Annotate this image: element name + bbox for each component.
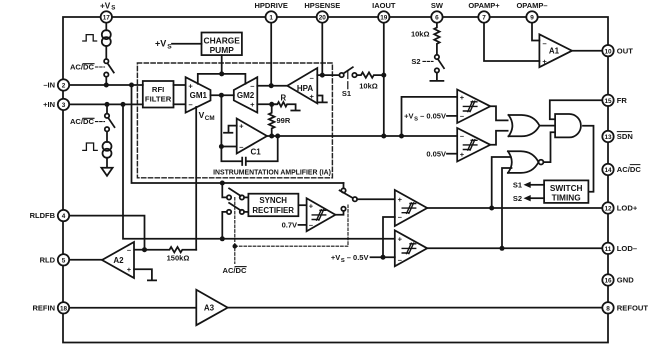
pin 13 SDN <box>602 131 613 142</box>
wire IAOUT pin 19 down <box>383 23 385 136</box>
wire GM2 + to R node <box>257 103 276 105</box>
svg-text:GND: GND <box>617 276 634 285</box>
label +Vs charge pump <box>155 38 172 50</box>
svg-text:CM: CM <box>205 115 215 122</box>
wire +IN net <box>69 103 143 105</box>
node -IN branch to synch switch <box>129 83 134 88</box>
label AC/DC control <box>222 266 247 275</box>
wire OR out to AND <box>540 125 556 127</box>
ground (open triangle) <box>101 168 112 176</box>
pin 20 HPSENSE <box>317 11 328 22</box>
svg-text:+: + <box>398 234 403 243</box>
svg-text:9: 9 <box>530 15 534 22</box>
op-amp HPA <box>287 68 317 103</box>
resistor 150k <box>145 247 197 252</box>
svg-text:–: – <box>543 39 547 48</box>
svg-text:GM1: GM1 <box>190 91 208 100</box>
svg-text:10: 10 <box>604 48 612 55</box>
node HPSENSE <box>320 73 325 78</box>
svg-text:13: 13 <box>604 134 612 141</box>
label +Vs - 0.5V <box>331 253 369 264</box>
AND gate U5 <box>555 114 581 137</box>
comparator U9 LOD- <box>395 230 427 266</box>
comparator U3 (0.05V) <box>457 128 490 162</box>
wire synch rectifier to comparator + <box>298 204 306 206</box>
svg-text:OUT: OUT <box>617 46 633 55</box>
label +Vs - 0.05V <box>404 112 446 123</box>
svg-text:10kΩ: 10kΩ <box>359 82 378 91</box>
pin 3 +IN <box>58 99 69 110</box>
svg-text:18: 18 <box>60 305 68 312</box>
svg-text:FILTER: FILTER <box>145 95 172 104</box>
wire IA output <box>267 135 457 137</box>
svg-text:V: V <box>199 110 205 120</box>
svg-text:20: 20 <box>319 15 327 22</box>
svg-text:LOD+: LOD+ <box>617 204 638 213</box>
svg-text:–: – <box>127 245 131 254</box>
op-amp A3 <box>196 290 227 326</box>
svg-text:–: – <box>250 81 254 90</box>
svg-text:99R: 99R <box>277 116 291 125</box>
wire HPSENSE pin 20 down <box>321 23 323 75</box>
svg-text:SW: SW <box>431 1 444 10</box>
svg-text:–: – <box>310 74 314 83</box>
svg-text:0.05V: 0.05V <box>426 149 446 158</box>
svg-text:7: 7 <box>482 15 486 22</box>
svg-text:+: + <box>460 93 465 102</box>
NOR gate U6 <box>508 151 539 173</box>
svg-text:150kΩ: 150kΩ <box>167 254 190 263</box>
svg-text:RLDFB: RLDFB <box>30 211 56 220</box>
wire current source to switch <box>105 46 107 59</box>
op-amp A1 <box>539 34 572 67</box>
label AC/DC lower <box>70 117 95 126</box>
node bottom wire to lower synch switch <box>220 236 225 241</box>
resistor 99R <box>269 104 275 136</box>
op-amp GM2 <box>234 77 257 112</box>
wire OPAMP+ pin 7 to A1 <box>484 23 539 61</box>
svg-text:10kΩ: 10kΩ <box>411 30 430 39</box>
svg-text:14: 14 <box>604 167 612 174</box>
wire NOR out to AND <box>543 132 555 162</box>
svg-text:RFI: RFI <box>152 85 164 94</box>
svg-text:S1: S1 <box>342 89 351 98</box>
comparator U8 LOD+ <box>395 190 427 226</box>
wire 0.05V to comparator + <box>447 153 457 155</box>
svg-text:+: + <box>460 150 465 159</box>
node C1 top <box>275 134 280 139</box>
node integrator - input <box>219 144 224 149</box>
node wire A to upper synch switch <box>220 181 225 186</box>
svg-text:A1: A1 <box>549 47 560 56</box>
wire REFIN pin 18 to A3 <box>69 307 196 309</box>
wire +Vs to charge pump <box>172 43 202 45</box>
wire charge pump bias <box>198 55 246 84</box>
svg-text:–: – <box>460 131 464 140</box>
wire A3 out to REFOUT pin 8 <box>228 307 603 309</box>
pin 15 FR <box>602 95 613 106</box>
pin 4 RLDFB <box>58 210 69 221</box>
label AC/DC upper <box>70 63 95 72</box>
svg-text:HPA: HPA <box>297 84 314 93</box>
svg-text:+: + <box>127 265 132 274</box>
svg-text:FR: FR <box>617 96 628 105</box>
svg-text:LOD–: LOD– <box>617 244 637 253</box>
IA dashed box <box>137 63 332 178</box>
node LOD+ to NOR <box>489 206 494 211</box>
node +IN branch to RLD amp <box>121 102 126 107</box>
wire LOD- output to pin 11 <box>427 247 602 249</box>
svg-text:S1: S1 <box>513 181 522 190</box>
wire NOR input from LOD- <box>502 168 512 248</box>
node AC/DC dashed junction <box>233 244 238 249</box>
comparator U7 (0.7V) <box>307 198 336 231</box>
pin 2 -IN <box>58 79 69 90</box>
svg-text:+: + <box>398 195 403 204</box>
node +IN / current source junction <box>105 102 110 107</box>
label 0.05V <box>426 149 446 158</box>
wire FR pin 15 to AND <box>550 100 603 119</box>
wire S2 control arrow <box>530 197 544 199</box>
node LOD- to NOR <box>500 246 505 251</box>
svg-text:+V: +V <box>155 38 166 48</box>
wire A2 - input <box>134 249 145 251</box>
pin 14 AC/DC <box>602 164 613 175</box>
svg-text:PUMP: PUMP <box>210 45 235 55</box>
svg-text:SYNCH: SYNCH <box>259 196 287 205</box>
comparator U2 (+Vs-0.05V) <box>457 90 490 124</box>
svg-text:11: 11 <box>605 246 612 253</box>
wire -IN net <box>69 84 143 86</box>
svg-text:C1: C1 <box>251 148 262 157</box>
pin 9 OPAMP- <box>526 11 537 22</box>
pin 5 RLD <box>58 254 69 265</box>
svg-text:SWITCH: SWITCH <box>550 183 583 193</box>
node -IN / current source junction <box>104 83 109 88</box>
OR gate U4 <box>509 115 540 136</box>
svg-text:S2: S2 <box>513 194 522 203</box>
wire S1 control arrow <box>530 184 544 186</box>
svg-text:15: 15 <box>604 98 612 105</box>
ground tick S2 <box>430 73 443 81</box>
synch rectifier box <box>248 194 298 217</box>
svg-text:+V S – 0.05V: +V S – 0.05V <box>404 112 446 123</box>
svg-text:OPAMP+: OPAMP+ <box>468 1 500 10</box>
wire current source to ground <box>106 158 108 168</box>
svg-text:TIMING: TIMING <box>552 192 581 202</box>
svg-text:–: – <box>460 112 464 121</box>
wire +IN branch down to LOD comparator <box>123 104 395 238</box>
wire HPDRIVE pin 1 down <box>270 23 272 86</box>
svg-text:+IN: +IN <box>43 100 55 109</box>
pin 8 REFOUT <box>602 302 613 313</box>
wire RLDFB pin 4 <box>69 216 144 250</box>
svg-text:–: – <box>398 213 402 222</box>
svg-text:–: – <box>398 255 402 264</box>
wire A1 out to pin 10 <box>572 50 603 52</box>
wire comparator U3 out to OR <box>490 131 510 145</box>
svg-text:+: + <box>239 121 244 130</box>
wire 0.05V ref to comparator - <box>447 115 457 117</box>
svg-text:–: – <box>239 142 243 151</box>
resistor 10k (fast restore) <box>357 72 384 77</box>
wire A2 out to RLD pin 5 <box>69 259 102 261</box>
resistor 10k (SW pin) <box>434 23 439 55</box>
svg-text:17: 17 <box>103 15 111 22</box>
wire AND out to switch timing <box>583 126 594 192</box>
svg-text:A2: A2 <box>113 256 124 265</box>
wire -IN branch down to synch switches (wire A) <box>132 85 344 183</box>
svg-text:+V: +V <box>100 1 111 10</box>
op-amp C1 integrator <box>237 119 267 154</box>
svg-text:S: S <box>111 4 115 11</box>
pin 7 OPAMP+ <box>478 11 489 22</box>
node HPDRIVE <box>269 83 274 88</box>
resistor R <box>272 102 300 111</box>
svg-text:–: – <box>309 221 313 230</box>
pin 10 OUT <box>602 45 613 56</box>
svg-text:SDN: SDN <box>617 132 633 141</box>
svg-text:HPDRIVE: HPDRIVE <box>255 1 288 10</box>
wire VCM net (GM1 bottom to 150k) <box>195 107 197 250</box>
wire comparator U2 out to OR <box>490 106 510 120</box>
wire 0.5V ref to LOD comparators <box>371 256 395 258</box>
wire SPDT to LOD+ comparator <box>357 198 395 200</box>
wire GM1 out down to integrator - input <box>221 95 236 146</box>
wire LOD+ comparator - input <box>383 217 395 257</box>
svg-text:RECTIFIER: RECTIFIER <box>252 206 294 215</box>
svg-text:12: 12 <box>604 206 612 213</box>
charge pump box <box>202 33 242 56</box>
pin 6 SW <box>431 11 442 22</box>
svg-text:0.7V: 0.7V <box>282 221 297 230</box>
svg-text:+: + <box>542 57 547 66</box>
svg-text:4: 4 <box>62 213 66 220</box>
wire NOR input from LOD+ <box>492 157 511 208</box>
svg-text:6: 6 <box>435 15 439 22</box>
svg-text:2: 2 <box>62 83 66 90</box>
svg-text:+: + <box>310 92 315 101</box>
switch S1 <box>339 73 343 77</box>
switch AC/DC upper <box>104 59 108 63</box>
wire RFI to GM1 + <box>174 84 186 86</box>
node comparator branch <box>399 134 404 139</box>
svg-text:OPAMP–: OPAMP– <box>516 1 547 10</box>
svg-text:19: 19 <box>380 15 388 22</box>
svg-text:IAOUT: IAOUT <box>372 1 396 10</box>
svg-text:+V S – 0.5V: +V S – 0.5V <box>331 253 369 264</box>
pin 19 IAOUT <box>378 11 389 22</box>
svg-text:CHARGE: CHARGE <box>204 35 241 45</box>
pin 17 +Vs <box>101 11 112 22</box>
SPDT switch (fast restore select) <box>343 183 345 188</box>
svg-text:–IN: –IN <box>43 81 55 90</box>
svg-text:AC/DC: AC/DC <box>617 165 642 174</box>
pin 11 LOD- <box>602 243 613 254</box>
synch rectifier switch lower <box>222 212 227 239</box>
pulse symbol lower <box>83 143 97 150</box>
op-amp GM1 <box>186 77 211 112</box>
svg-text:INSTRUMENTATION AMPLIFIER (IA): INSTRUMENTATION AMPLIFIER (IA) <box>213 170 331 177</box>
RFI filter box <box>143 81 174 108</box>
svg-text:HPSENSE: HPSENSE <box>304 1 340 10</box>
svg-text:A3: A3 <box>204 304 215 313</box>
svg-text:1: 1 <box>269 15 273 22</box>
wire AC/DC control dashed <box>235 198 348 264</box>
op-amp A2 <box>102 242 134 278</box>
pin 1 HPDRIVE <box>266 11 277 22</box>
svg-text:REFIN: REFIN <box>33 303 56 312</box>
wire OPAMP- pin 9 to A1 <box>532 23 539 41</box>
svg-text:16: 16 <box>604 278 612 285</box>
switch timing box <box>544 180 588 203</box>
switch S2 <box>435 55 439 59</box>
pulse symbol upper <box>83 35 97 41</box>
wire IA out up to comparator branch <box>402 97 458 136</box>
svg-text:8: 8 <box>606 305 610 312</box>
svg-text:RLD: RLD <box>40 255 56 264</box>
label VCM <box>199 110 215 122</box>
node SW resistor to IAOUT <box>381 73 386 78</box>
node 0.5V ref <box>381 255 386 260</box>
svg-text:+: + <box>250 100 255 109</box>
wire +Vs pin 17 to current source <box>105 23 107 31</box>
svg-text:GM2: GM2 <box>237 91 255 100</box>
node IAOUT <box>381 134 386 139</box>
node R / 99R <box>269 102 274 107</box>
chip boundary <box>63 17 608 343</box>
current source I1 <box>102 30 111 39</box>
svg-text:3: 3 <box>62 102 66 109</box>
wire RFI to GM1 - <box>174 103 186 105</box>
wire +IN to lower switch <box>106 104 108 113</box>
wire 0.7V to comparator - <box>299 224 307 226</box>
node charge pump bias <box>219 71 224 76</box>
pin 16 GND <box>602 274 613 285</box>
node RLDFB / 150k <box>142 247 147 252</box>
switch AC/DC lower <box>105 114 109 118</box>
current source I2 <box>103 142 112 151</box>
wire HPA - to S1 <box>317 74 339 76</box>
wire comparator U7 out to SPDT <box>335 211 343 215</box>
svg-text:+: + <box>188 81 193 90</box>
wire LOD+ output to pin 12 <box>427 207 602 209</box>
ground tick A2 + <box>134 269 156 280</box>
svg-text:REFOUT: REFOUT <box>617 303 649 312</box>
node 99R bottom <box>269 134 274 139</box>
label 0.7V <box>282 221 297 230</box>
synch rectifier switch upper <box>222 183 227 197</box>
wire GM2 - to HPA output / HPDRIVE <box>257 85 287 87</box>
pin 18 REFIN <box>58 302 69 313</box>
svg-text:S2: S2 <box>411 57 420 66</box>
pin 12 LOD+ <box>602 202 613 213</box>
label INSTRUMENTATION AMPLIFIER (IA) <box>213 170 331 177</box>
capacitor C1 <box>221 136 277 165</box>
node GM1 output <box>219 93 224 98</box>
svg-text:–: – <box>189 100 193 109</box>
svg-text:5: 5 <box>62 257 66 264</box>
svg-text:R: R <box>280 93 286 102</box>
svg-text:+: + <box>309 201 314 210</box>
ground tick integrator + <box>224 126 237 133</box>
wire GM1 output to GM2 <box>211 94 234 96</box>
ground tick HPA + <box>317 96 327 103</box>
